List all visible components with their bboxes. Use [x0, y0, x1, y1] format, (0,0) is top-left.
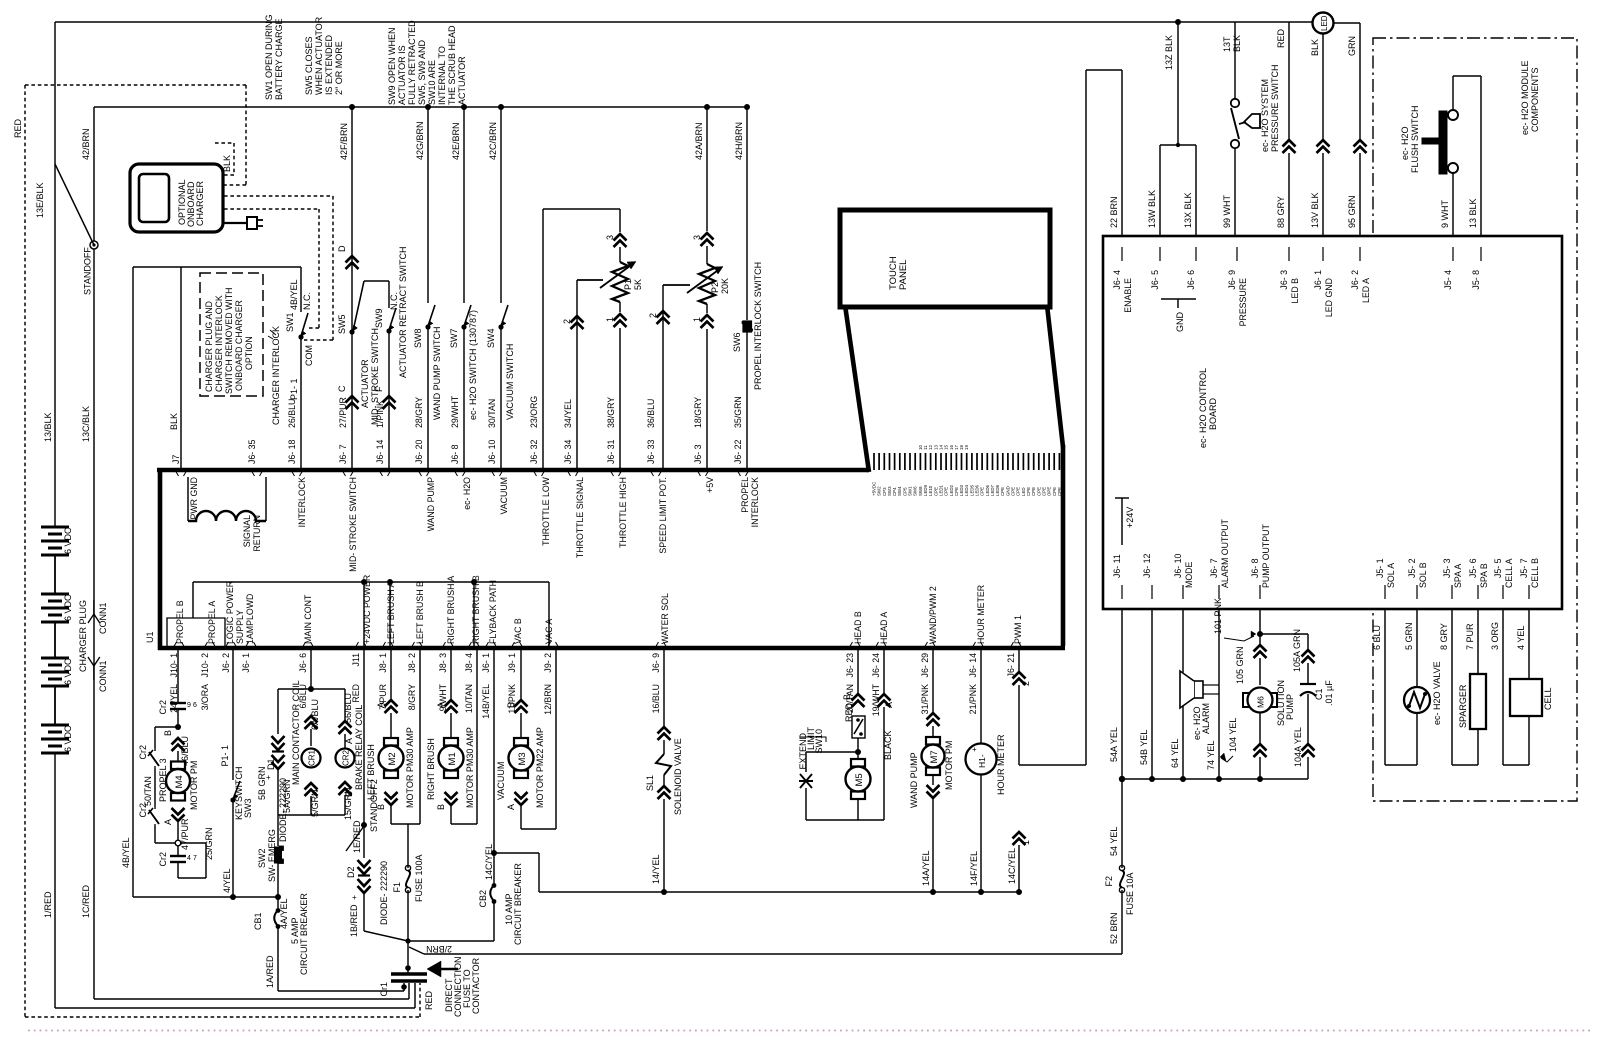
wire 42F/BRN [351, 107, 353, 330]
dashed charger output 1 [224, 195, 333, 197]
pin J6- 20 on main board bus [418, 470, 430, 476]
svg-text:22 BRN: 22 BRN [1109, 196, 1119, 228]
connector CONN1 upper fork [93, 600, 95, 614]
svg-text:5B GRN: 5B GRN [257, 766, 267, 800]
wire 74 YEL [1218, 609, 1220, 779]
connector chevron 2 PWM1 [1013, 672, 1026, 685]
wire D2 to F1 junction [363, 894, 365, 931]
svg-text:7 PUR: 7 PUR [1465, 623, 1475, 650]
svg-text:42C/BRN: 42C/BRN [488, 122, 498, 160]
svg-text:SW10 ARE: SW10 ARE [427, 60, 437, 105]
svg-text:6 VDC: 6 VDC [63, 594, 73, 621]
fuse F1 100A [407, 824, 409, 868]
wire 54B YEL [1151, 609, 1153, 779]
svg-text:6A/BLU: 6A/BLU [310, 699, 320, 730]
svg-text:SWITCH REMOVED WITH: SWITCH REMOVED WITH [224, 287, 234, 394]
svg-text:M1: M1 [447, 752, 458, 765]
svg-text:J6- 32: J6- 32 [529, 439, 539, 464]
svg-text:105 GRN: 105 GRN [1235, 646, 1245, 684]
wire 7 PUR [1477, 609, 1479, 674]
svg-text:A: A [436, 702, 446, 708]
wire battery interconnects [54, 555, 56, 594]
connector chevron B M2 [385, 792, 398, 805]
svg-text:M7: M7 [929, 750, 940, 763]
wire RED J11 [363, 582, 365, 648]
svg-text:35/GRN: 35/GRN [733, 396, 743, 428]
wire 27/PUR to bus [351, 333, 353, 470]
svg-text:CONN1: CONN1 [98, 602, 108, 634]
svg-text:14F/YEL: 14F/YEL [969, 851, 979, 886]
svg-text:J6- 14: J6- 14 [968, 653, 978, 678]
connector chevron A M2 [385, 700, 398, 713]
wire 9 WHT [1452, 173, 1454, 236]
svg-text:ec- H2O SYSTEM: ec- H2O SYSTEM [1260, 79, 1270, 152]
board ec-H2O control [1103, 236, 1562, 609]
connector chevron BLK LED [1317, 140, 1330, 153]
inductor signal return coil [187, 477, 189, 521]
svg-text:J6- 4: J6- 4 [1112, 270, 1122, 290]
svg-text:SW8: SW8 [413, 328, 423, 348]
svg-text:DIODE- 222290: DIODE- 222290 [379, 861, 389, 925]
svg-text:Cr2: Cr2 [158, 852, 168, 867]
diode D1 [277, 689, 279, 734]
pin J10- 1 on U1 bottom [173, 642, 185, 648]
svg-text:PWM 1: PWM 1 [1013, 615, 1023, 644]
svg-text:1C/RED: 1C/RED [81, 884, 91, 918]
svg-text:1/RED: 1/RED [43, 891, 53, 918]
svg-text:14A/YEL: 14A/YEL [921, 850, 931, 886]
svg-text:M4: M4 [174, 775, 185, 788]
svg-text:SW9: SW9 [374, 308, 384, 328]
svg-text:J9- 1: J9- 1 [507, 653, 517, 673]
svg-text:J6- 34: J6- 34 [563, 439, 573, 464]
connector CONN1 lower fork [88, 657, 100, 666]
svg-text:101 PNK: 101 PNK [1213, 598, 1223, 634]
svg-text:64 YEL: 64 YEL [1170, 739, 1180, 768]
wire pump output [1259, 609, 1261, 645]
connector chevron B M1 [445, 792, 458, 805]
wire standoff2 diagonal [346, 826, 364, 851]
svg-text:FLUSH SWITCH: FLUSH SWITCH [1410, 106, 1420, 174]
pin J9- 1 on U1 bottom [511, 642, 523, 648]
wire 42C/BRN [500, 107, 502, 303]
svg-text:28/GRY: 28/GRY [414, 397, 424, 428]
svg-text:CHARGER INTERLOCK: CHARGER INTERLOCK [214, 295, 224, 392]
svg-text:56/BLU: 56/BLU [343, 693, 353, 723]
connector chevron RED [1283, 140, 1296, 153]
svg-text:J6- 7: J6- 7 [1209, 558, 1219, 578]
svg-text:J9- 2: J9- 2 [543, 653, 553, 673]
wire 8 GRY [1451, 609, 1453, 765]
wire yellow rail [1122, 778, 1308, 780]
svg-text:36/BLU: 36/BLU [646, 399, 656, 428]
svg-text:BOARD: BOARD [1208, 397, 1218, 430]
svg-text:LED A: LED A [1361, 278, 1371, 303]
svg-text:N.C.: N.C. [302, 292, 312, 310]
svg-text:J8- 1: J8- 1 [378, 653, 388, 673]
svg-text:PANEL: PANEL [898, 260, 909, 290]
capacitor contactor Cr1 plates [391, 972, 427, 975]
svg-text:J6- 12: J6- 12 [1142, 553, 1152, 578]
svg-text:J8- 4: J8- 4 [464, 653, 474, 673]
svg-text:WAND PUMP: WAND PUMP [426, 477, 436, 532]
svg-text:13Z BLK: 13Z BLK [1164, 35, 1174, 70]
svg-text:12/BRN: 12/BRN [543, 684, 553, 715]
pin J5- 7 ec-H2O board bottom [1528, 585, 1530, 599]
svg-text:J6- 33: J6- 33 [646, 439, 656, 464]
wire between contacts [154, 768, 156, 806]
svg-text:RIGHT BRUSH B: RIGHT BRUSH B [471, 575, 481, 644]
svg-text:SIGNAL: SIGNAL [242, 515, 252, 547]
svg-text:BATTERY CHARGE: BATTERY CHARGE [274, 18, 284, 100]
svg-text:3 ORG: 3 ORG [1490, 622, 1500, 650]
svg-text:CB1: CB1 [253, 912, 263, 930]
pin J6- 1 on U1 bottom [245, 642, 257, 648]
svg-text:M2: M2 [387, 752, 398, 765]
connector chevron SL1 top [658, 727, 671, 740]
wire 42 BRN top sub-rail [94, 106, 747, 108]
svg-text:SW- EMERG: SW- EMERG [267, 829, 277, 882]
svg-text:42E/BRN: 42E/BRN [451, 122, 461, 160]
wire 88 GRY [1288, 153, 1290, 236]
wire 14/YEL link [494, 852, 539, 854]
svg-text:J5- 3: J5- 3 [1442, 558, 1452, 578]
wire 1A/RED [277, 928, 279, 991]
page bottom dotted border [28, 1030, 1592, 1032]
svg-text:J6- 23: J6- 23 [845, 653, 855, 678]
svg-text:INTERLOCK: INTERLOCK [750, 477, 760, 527]
svg-text:16/BLU: 16/BLU [651, 684, 661, 713]
battery B2 6VDC [41, 593, 69, 596]
wire contact branch bottom [154, 826, 156, 843]
wiper P2 arm [663, 284, 690, 286]
svg-text:42/BRN: 42/BRN [81, 128, 91, 160]
pin J5- 5 ec-H2O board bottom [1502, 585, 1504, 599]
svg-text:B: B [436, 804, 446, 810]
board U1 bottom edge [158, 646, 1065, 651]
svg-text:14/YEL: 14/YEL [651, 854, 661, 884]
connector chevron A M1 [445, 700, 458, 713]
svg-text:50/TAN: 50/TAN [143, 776, 153, 806]
motor M7 wand pump [932, 726, 934, 737]
breaker CB1 5 AMP [277, 897, 279, 909]
svg-text:PWR GND: PWR GND [189, 477, 199, 520]
svg-text:ACTUATOR: ACTUATOR [457, 56, 467, 105]
svg-text:4A/YEL: 4A/YEL [279, 898, 289, 929]
pin J6- 10 on main board bus [491, 470, 503, 476]
svg-text:+: + [352, 893, 357, 902]
pin J6- 10 ec-H2O board bottom [1182, 585, 1184, 599]
svg-text:M3: M3 [517, 752, 528, 765]
svg-text:SOLENOID VALVE: SOLENOID VALVE [673, 738, 683, 815]
wire 14B/YEL [493, 648, 495, 853]
pin J6- 35 on main board bus [251, 470, 263, 476]
wire 34/YEL throttle signal [576, 280, 578, 470]
svg-text:1B/RED: 1B/RED [349, 904, 359, 937]
svg-text:MAIN CONTACTOR COIL: MAIN CONTACTOR COIL [291, 680, 301, 785]
svg-text:MOTOR PM22 AMP: MOTOR PM22 AMP [535, 727, 545, 808]
board U1 top bus edge [157, 468, 869, 473]
svg-text:Cr2: Cr2 [138, 803, 148, 818]
svg-text:SW1: SW1 [285, 312, 295, 332]
svg-text:SOL B: SOL B [1418, 562, 1428, 588]
svg-text:CPE: CPE [1057, 487, 1062, 496]
svg-text:14B/YEL: 14B/YEL [481, 684, 491, 719]
svg-text:LEFT BRUSH A: LEFT BRUSH A [386, 581, 396, 644]
wire 4/YEL keyswitch to rail [232, 801, 234, 897]
svg-text:ec- H2O MODULE: ec- H2O MODULE [1520, 60, 1530, 135]
svg-text:J5- 4: J5- 4 [1443, 270, 1453, 290]
wire 42G/BRN [427, 107, 429, 303]
pin J6- 34 on main board bus [567, 470, 579, 476]
svg-text:+5V: +5V [705, 477, 715, 493]
svg-text:J6- 9: J6- 9 [1227, 270, 1237, 290]
arrow direct connection [427, 961, 441, 977]
interior +24V rail [193, 581, 549, 583]
svg-text:B: B [506, 702, 516, 708]
switch SW7 [464, 305, 471, 326]
wire 4B/YEL left drop [132, 267, 134, 897]
svg-text:2: 2 [1021, 681, 1031, 686]
svg-text:J10- 2: J10- 2 [200, 653, 210, 678]
svg-text:VACUUM: VACUUM [496, 762, 506, 800]
svg-text:31/PNK: 31/PNK [920, 684, 930, 714]
svg-text:1/PINK: 1/PINK [375, 400, 385, 428]
pin J5- 3 ec-H2O board bottom [1451, 585, 1453, 599]
connector chevron 2 P1 [571, 316, 584, 329]
pin J6- 1 on U1 bottom [485, 642, 497, 648]
pin J6- 31 on main board bus [610, 470, 622, 476]
touch panel box [840, 210, 1050, 307]
svg-text:BRAKE RELAY COIL: BRAKE RELAY COIL [354, 705, 364, 790]
svg-text:VAC A: VAC A [544, 619, 554, 644]
svg-text:SPEED LIMIT POT.: SPEED LIMIT POT. [658, 477, 668, 554]
svg-text:2: 2 [648, 313, 658, 318]
svg-text:74 YEL: 74 YEL [1206, 741, 1216, 770]
svg-text:PRESSURE SWITCH: PRESSURE SWITCH [1270, 64, 1280, 152]
wire 3/ORA [232, 648, 234, 780]
svg-text:D: D [337, 245, 347, 252]
svg-text:MODE: MODE [1184, 561, 1194, 588]
svg-text:J6- 6: J6- 6 [1186, 270, 1196, 290]
svg-text:6 VDC: 6 VDC [63, 658, 73, 685]
svg-text:ACTUATOR RETRACT SWITCH: ACTUATOR RETRACT SWITCH [398, 246, 408, 378]
fuse F2 10A [1121, 779, 1123, 868]
wire 4B/YEL top link y267 [133, 266, 301, 268]
capacitor C1 .01uF [1307, 663, 1309, 684]
wire 3 ORG [1502, 609, 1504, 765]
wire pump to rail [1259, 713, 1261, 744]
wire PWM1 [1018, 648, 1020, 672]
svg-text:CIRCUIT BREAKER: CIRCUIT BREAKER [513, 863, 523, 945]
wire 64 YEL [1182, 609, 1184, 779]
svg-text:INTERNAL TO: INTERNAL TO [437, 46, 447, 105]
svg-text:LOGIC POWER: LOGIC POWER [225, 581, 235, 644]
sparger [1477, 729, 1479, 765]
pin J6- 23 on U1 bottom [849, 642, 861, 648]
svg-text:4 YEL: 4 YEL [1516, 626, 1526, 650]
svg-text:RED: RED [13, 118, 23, 138]
wire drop right brush B from rail [473, 582, 475, 648]
svg-text:WAND PUMP: WAND PUMP [909, 752, 919, 808]
wire 1/RED battery negative run [54, 753, 56, 1008]
motor M5 head [857, 752, 859, 760]
svg-text:54 YEL: 54 YEL [1109, 827, 1119, 856]
pin J11 on U1 bottom [355, 642, 367, 648]
pin J6- 6 ec-H2O board top [1195, 247, 1197, 261]
wire J7 BLK riser [180, 267, 182, 470]
svg-text:SW5: SW5 [337, 314, 347, 334]
svg-text:PROPEL INTERLOCK SWITCH: PROPEL INTERLOCK SWITCH [753, 262, 763, 390]
wire M7 to rail [932, 775, 934, 785]
pin J6- 9 ec-H2O board top [1236, 247, 1238, 261]
pin J8- 2 on U1 bottom [411, 642, 423, 648]
svg-text:J11: J11 [351, 653, 361, 667]
svg-text:88 GRY: 88 GRY [1276, 196, 1286, 228]
wire F1 to Cr1 [407, 941, 409, 968]
relay coil CR2 brake relay [344, 689, 346, 721]
wire BLK LED [1322, 34, 1324, 140]
wire drop left brush A from rail [389, 582, 391, 648]
svg-text:Cr1: Cr1 [379, 982, 389, 997]
svg-text:J6- 14: J6- 14 [375, 439, 385, 464]
wire SW8 to bus [427, 328, 429, 470]
connector chevron pump top [1254, 645, 1267, 658]
svg-text:18/GRY: 18/GRY [693, 397, 703, 428]
motor M3 [514, 738, 528, 746]
svg-text:SW7: SW7 [449, 328, 459, 348]
svg-text:ONBOARD CHARGER: ONBOARD CHARGER [234, 300, 244, 391]
wire SL1 to 14/YEL rail [663, 799, 665, 892]
svg-text:3: 3 [692, 235, 702, 240]
battery B4 6VDC [41, 724, 69, 727]
svg-text:SW4: SW4 [486, 328, 496, 348]
svg-text:BLK: BLK [1310, 39, 1320, 56]
svg-text:3/ORA: 3/ORA [200, 684, 210, 711]
pin J6- 11 ec-H2O board bottom [1121, 585, 1123, 599]
charger cord and plug [223, 222, 247, 224]
LED indicator [1313, 13, 1334, 34]
svg-text:CHARGER INTERLOCK: CHARGER INTERLOCK [271, 326, 281, 425]
svg-text:THROTTLE SIGNAL: THROTTLE SIGNAL [575, 477, 585, 558]
svg-text:J6- 29: J6- 29 [920, 653, 930, 678]
wire 14/YEL rail [539, 891, 1019, 893]
wire 54A YEL [1121, 609, 1123, 779]
svg-text:26/BLU: 26/BLU [287, 399, 297, 428]
svg-text:5/GRN: 5/GRN [310, 789, 320, 817]
pin J6- 3 on main board bus [697, 470, 709, 476]
wire 12/BRN [555, 648, 557, 829]
pin J5- 2 ec-H2O board bottom [1416, 585, 1418, 599]
solenoid SL1 valve coil [663, 740, 665, 754]
svg-text:13 BLK: 13 BLK [1468, 198, 1478, 228]
svg-text:J6- 20: J6- 20 [414, 439, 424, 464]
svg-text:J6- 1: J6- 1 [1313, 270, 1323, 290]
contact Cr2 upper [154, 748, 156, 751]
switch SW3 keyswitch [233, 781, 240, 799]
connector chevron 1 14C/YEL [1013, 832, 1026, 845]
symbol GND [1161, 298, 1196, 300]
wire M4 loop bottom [177, 862, 179, 878]
svg-text:14C/YEL: 14C/YEL [484, 844, 494, 880]
svg-text:J8- 2: J8- 2 [407, 653, 417, 673]
wiper P1 arm [577, 279, 603, 281]
svg-text:4B/YEL: 4B/YEL [289, 279, 299, 310]
svg-text:P1- 1: P1- 1 [220, 745, 230, 767]
svg-text:J6- 10: J6- 10 [487, 439, 497, 464]
connector chevron C [346, 396, 359, 409]
svg-text:HEAD A: HEAD A [879, 612, 889, 644]
svg-text:HEAD B: HEAD B [853, 611, 863, 644]
connector chevron pump bottom [1254, 744, 1267, 757]
svg-text:A: A [376, 702, 386, 708]
svg-text:ACTUATOR: ACTUATOR [360, 359, 370, 408]
svg-text:VACUUM SWITCH: VACUUM SWITCH [505, 344, 515, 420]
pin J5- 4 ec-H2O board top [1452, 247, 1454, 261]
board U1 left edge [158, 468, 163, 650]
connector chevron SL1 bottom [658, 786, 671, 799]
svg-text:J5- 1: J5- 1 [1375, 558, 1385, 578]
pin J6- 7 on main board bus [342, 470, 354, 476]
svg-text:COM: COM [304, 345, 314, 366]
connector chevron D [346, 256, 359, 269]
svg-text:47/PUR: 47/PUR [180, 818, 190, 850]
svg-text:42A/BRN: 42A/BRN [694, 122, 704, 160]
pin J6- 14 on main board bus [379, 470, 391, 476]
svg-text:J6- 8: J6- 8 [450, 444, 460, 464]
wire 13W BLK [1159, 145, 1161, 236]
svg-text:54A YEL: 54A YEL [1109, 727, 1119, 762]
svg-text:CELL: CELL [1543, 687, 1553, 710]
svg-text:5K: 5K [633, 279, 643, 290]
svg-text:95 GRN: 95 GRN [1347, 195, 1357, 228]
cell [1528, 716, 1530, 765]
connector chevron A M3 [515, 792, 528, 805]
svg-text:4: 4 [187, 855, 191, 862]
svg-text:M5: M5 [854, 773, 865, 786]
battery B1 6VDC [41, 526, 69, 529]
svg-text:BLACK: BLACK [883, 730, 893, 760]
svg-text:P1: P1 [623, 279, 633, 290]
capacitor Cr2 upper [170, 702, 186, 704]
svg-text:GND: GND [1175, 312, 1185, 333]
switch ec-H2O flush [1439, 111, 1447, 174]
svg-text:13C/BLK: 13C/BLK [81, 406, 91, 442]
svg-text:J6- 10: J6- 10 [1173, 553, 1183, 578]
svg-text:M6: M6 [1256, 696, 1266, 708]
svg-text:J5- 5: J5- 5 [1493, 558, 1503, 578]
svg-text:ec- H2O SWITCH (130787): ec- H2O SWITCH (130787) [468, 310, 478, 420]
svg-text:CR1: CR1 [308, 749, 317, 766]
wire 5 GRN [1416, 609, 1418, 687]
svg-text:C1: C1 [1314, 688, 1324, 700]
svg-text:J6- 22: J6- 22 [733, 439, 743, 464]
pin J9- 2 on U1 bottom [547, 642, 559, 648]
svg-text:THROTTLE LOW: THROTTLE LOW [541, 476, 551, 546]
diode D2 [363, 825, 365, 858]
svg-text:52 BRN: 52 BRN [1109, 912, 1119, 944]
wire RED to LED [1288, 22, 1290, 140]
svg-text:SL1: SL1 [645, 775, 655, 791]
svg-text:J6- 1: J6- 1 [481, 653, 491, 673]
svg-text:Cr2: Cr2 [158, 700, 168, 715]
wire 9/WHT [450, 648, 452, 700]
connector chevron F [383, 396, 396, 409]
switch SW4 [501, 305, 508, 326]
wire 11/PNK [520, 648, 522, 700]
svg-text:WAND/PWM 2: WAND/PWM 2 [928, 586, 938, 644]
svg-text:SUPPLY: SUPPLY [235, 610, 245, 644]
